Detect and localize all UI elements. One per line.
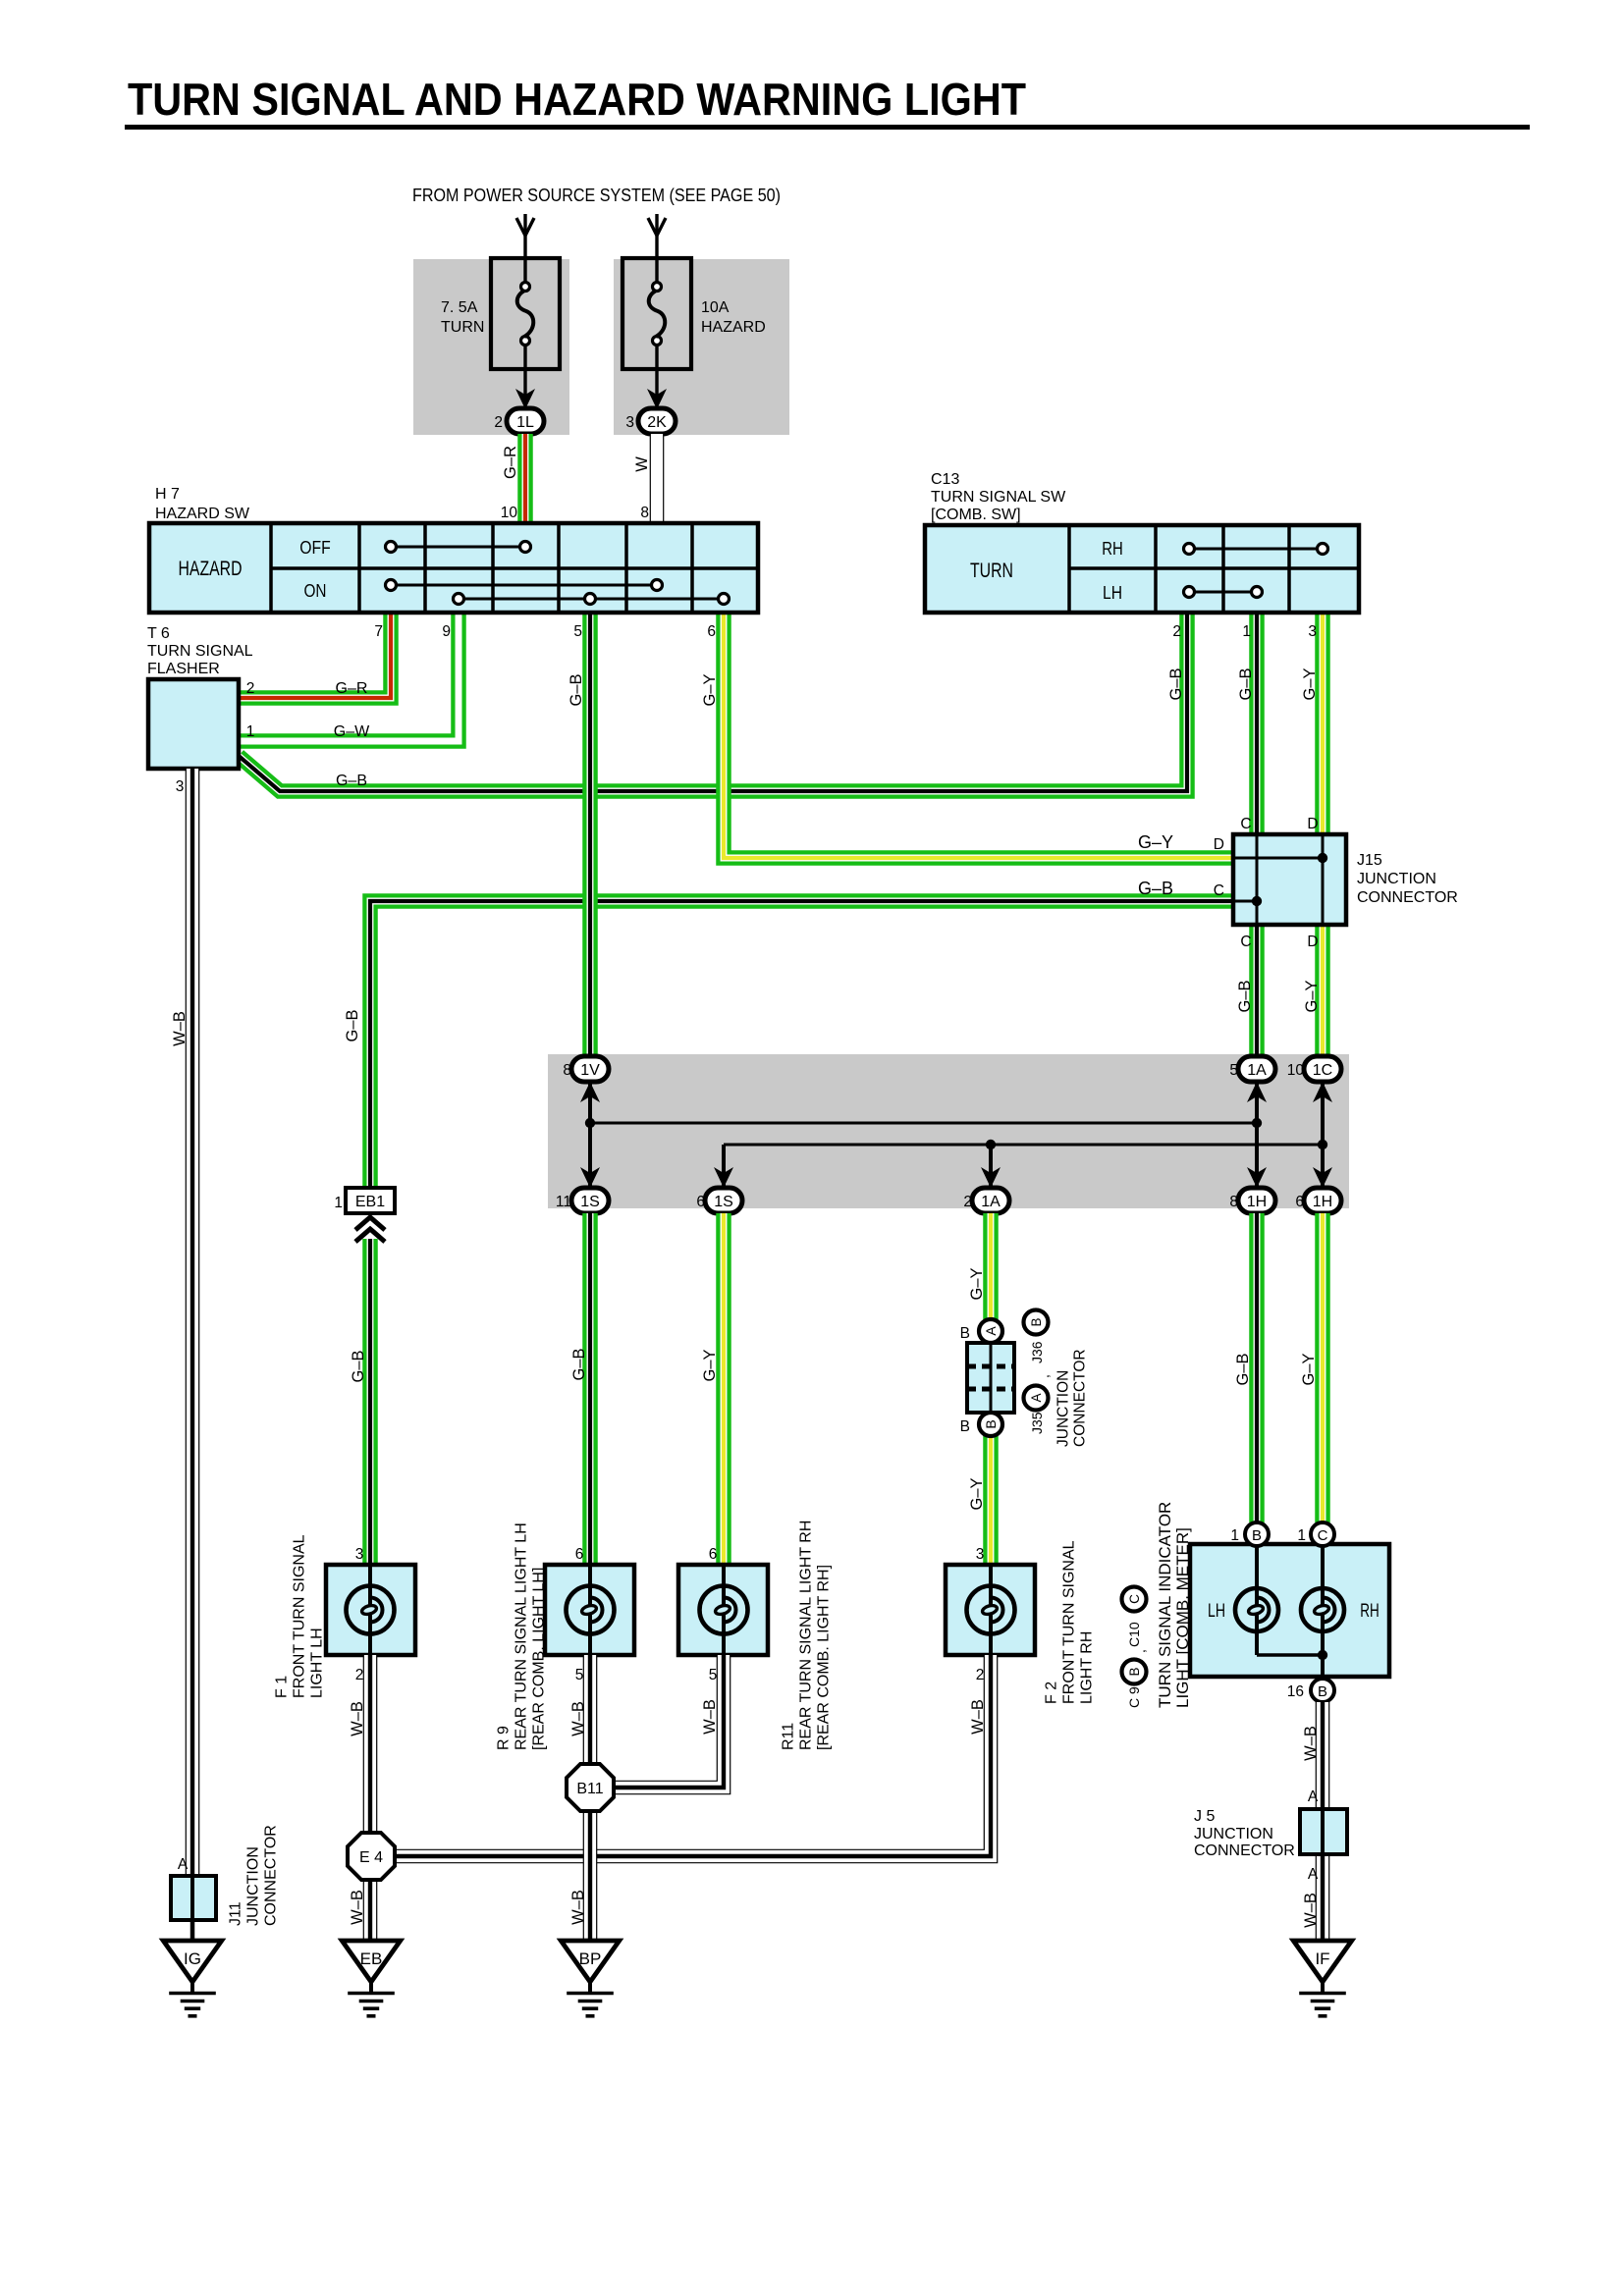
meter pin 1 B circle: [1245, 1522, 1269, 1546]
wire W-B R9 to BP ground: [583, 1655, 598, 1941]
svg-text:G–B: G–B: [570, 1348, 588, 1380]
svg-text:CONNECTOR: CONNECTOR: [1071, 1349, 1088, 1447]
svg-text:G–W: G–W: [334, 723, 370, 740]
svg-text:1C: 1C: [1313, 1062, 1332, 1079]
svg-text:EB: EB: [360, 1949, 383, 1968]
svg-text:F 1: F 1: [274, 1676, 291, 1698]
svg-text:G–R: G–R: [502, 446, 519, 479]
svg-text:CONNECTOR: CONNECTOR: [1194, 1842, 1295, 1859]
fuse 10A HAZARD with feed arrow and connector 3 2K: [655, 214, 658, 284]
octagon connector B11: [567, 1764, 614, 1811]
svg-text:G–Y: G–Y: [1300, 1353, 1318, 1385]
arrow into 5 1A: [1247, 1082, 1267, 1102]
hazard SW internal dividers: [269, 523, 273, 613]
svg-text:10: 10: [501, 505, 518, 521]
wire G-R fuse 1L to hazard SW pin 10: [517, 434, 533, 523]
svg-text:C: C: [1214, 882, 1224, 899]
connector oval 8 1H: [1238, 1188, 1275, 1213]
junction connector J15 box: [1233, 834, 1346, 925]
svg-text:,: ,: [1132, 1649, 1148, 1653]
svg-text:TURN: TURN: [970, 560, 1013, 582]
svg-text:W–B: W–B: [171, 1011, 189, 1046]
wire G-Y 6 1S to rear turn signal light RH: [716, 1213, 731, 1565]
svg-text:W–B: W–B: [1302, 1726, 1320, 1761]
meter RH indicator bulb: [1301, 1588, 1344, 1631]
svg-text:B: B: [1029, 1317, 1044, 1326]
svg-text:BP: BP: [579, 1949, 602, 1968]
svg-text:D: D: [1307, 934, 1318, 950]
turn signal switch C13 box: [925, 525, 1359, 613]
svg-text:ON: ON: [304, 581, 327, 601]
wire W-B R11 to B11 horizontal: [616, 1655, 724, 1788]
meter pin 1 C circle: [1311, 1522, 1334, 1546]
svg-text:[REAR COMB. LIGHT LH]: [REAR COMB. LIGHT LH]: [531, 1568, 548, 1750]
svg-text:W–B: W–B: [349, 1701, 366, 1736]
wire G-B J15 pin C to EB1 connector: [370, 901, 1233, 1188]
EB1 shield chevrons: [355, 1217, 385, 1230]
bus line A junction dots: [585, 1118, 595, 1128]
svg-text:G–B: G–B: [1167, 667, 1185, 700]
svg-text:[REAR COMB. LIGHT RH]: [REAR COMB. LIGHT RH]: [816, 1565, 833, 1750]
wire G-Y hazard SW pin 6 to J15 pin D: [724, 613, 1233, 858]
svg-text:B: B: [983, 1419, 999, 1428]
svg-text:G–B: G–B: [568, 673, 585, 706]
wire G-Y C13 pin 3 to J15 top D: [1315, 613, 1330, 834]
gray band bus line B: [724, 1144, 1323, 1147]
hazard SW OFF contact pin7-pin10: [391, 546, 525, 549]
meter pin 16 B circle: [1311, 1679, 1334, 1702]
F2 bulb: [967, 1586, 1015, 1634]
wire J11 to IG ground: [190, 1920, 195, 1941]
F1 bulb: [347, 1586, 395, 1634]
svg-text:LIGHT [COMB. METER]: LIGHT [COMB. METER]: [1173, 1527, 1192, 1708]
svg-text:TURN SIGNAL: TURN SIGNAL: [147, 643, 253, 660]
svg-text:CONNECTOR: CONNECTOR: [263, 1825, 280, 1926]
svg-text:11: 11: [556, 1194, 571, 1210]
hazard SW ON contact pin9-pin5-pin6: [459, 598, 724, 601]
svg-text:1H: 1H: [1247, 1194, 1267, 1210]
svg-text:JUNCTION: JUNCTION: [1357, 871, 1436, 887]
svg-text:W–B: W–B: [969, 1699, 987, 1735]
band vertical to 1A second: [989, 1145, 993, 1188]
svg-text:C 9: C 9: [1126, 1686, 1142, 1708]
svg-text:1: 1: [1297, 1527, 1306, 1544]
arrow into 2 1A: [981, 1167, 1001, 1188]
svg-text:16: 16: [1287, 1683, 1304, 1700]
svg-text:JUNCTION: JUNCTION: [1194, 1826, 1273, 1842]
J15 internal D horizontal with junction dot: [1233, 857, 1323, 860]
svg-text:A: A: [1308, 1789, 1319, 1805]
svg-text:T 6: T 6: [147, 625, 170, 642]
svg-text:J35: J35: [1029, 1412, 1045, 1434]
svg-text:5: 5: [1229, 1062, 1238, 1079]
svg-text:B: B: [1252, 1527, 1262, 1544]
svg-text:IG: IG: [184, 1949, 201, 1968]
svg-text:,: ,: [1036, 1374, 1052, 1378]
svg-text:REAR TURN SIGNAL LIGHT LH: REAR TURN SIGNAL LIGHT LH: [514, 1522, 530, 1750]
ground EB: [342, 1941, 400, 1982]
connector oval 6 1S: [705, 1188, 742, 1213]
ground IF: [1293, 1941, 1351, 1982]
svg-text:H 7: H 7: [155, 486, 180, 503]
connector oval 11 1S: [571, 1188, 609, 1213]
svg-text:5: 5: [709, 1667, 718, 1683]
svg-text:LIGHT LH: LIGHT LH: [309, 1628, 326, 1698]
arrow into 11 1S: [580, 1167, 600, 1188]
svg-text:3: 3: [1308, 623, 1317, 640]
svg-text:G–Y: G–Y: [1138, 832, 1173, 852]
wire G-B J15 bottom C to connector 5 1A: [1249, 925, 1265, 1056]
svg-text:CONNECTOR: CONNECTOR: [1357, 889, 1458, 906]
wire W-B T6 pin 3 to J11: [186, 769, 200, 1876]
svg-text:[COMB. SW]: [COMB. SW]: [931, 507, 1021, 523]
svg-text:6: 6: [696, 1194, 705, 1210]
wire G-B from T6 flasher to C13 pin 2 via long horizontal: [239, 613, 1187, 791]
svg-text:10A: 10A: [701, 299, 730, 316]
fuse 7.5A TURN with feed arrow and connector 2 1L: [523, 214, 526, 284]
title underline: [125, 125, 1530, 130]
R11 bulb: [700, 1586, 748, 1634]
svg-text:1: 1: [334, 1195, 343, 1211]
svg-text:A: A: [983, 1326, 999, 1336]
svg-text:8: 8: [640, 505, 649, 521]
gray band instrument panel harness: [548, 1054, 1349, 1208]
svg-text:1S: 1S: [580, 1194, 600, 1210]
bus line B junction dots: [986, 1140, 996, 1149]
svg-text:C: C: [1240, 816, 1251, 832]
meter internal junction dot: [1318, 1650, 1327, 1660]
wire G-B 8 1H to combination meter B: [1249, 1213, 1265, 1522]
svg-text:D: D: [1214, 836, 1224, 853]
gray panel around fuse TURN: [413, 259, 569, 435]
wire W fuse 2K to hazard SW pin 8: [650, 434, 665, 523]
svg-text:B: B: [1318, 1683, 1327, 1700]
svg-text:F 2: F 2: [1044, 1682, 1060, 1704]
svg-text:TURN: TURN: [441, 319, 484, 336]
svg-text:3: 3: [176, 778, 185, 795]
wire W-B F2 to E4 horizontal: [397, 1655, 991, 1856]
svg-text:2K: 2K: [647, 414, 667, 431]
svg-text:EB1: EB1: [355, 1194, 385, 1210]
ground IG: [163, 1941, 221, 1982]
junction connector J35 J36 box: [967, 1343, 1014, 1413]
svg-text:J 5: J 5: [1194, 1808, 1215, 1825]
front turn signal light LH F1 box: [326, 1565, 415, 1655]
svg-text:2: 2: [1172, 623, 1181, 640]
ground BP: [561, 1941, 619, 1982]
hazard switch H7 box: [149, 523, 758, 613]
J15 internal D line vertical: [1322, 834, 1325, 925]
wire G-B EB1 to front turn signal light LH: [362, 1239, 378, 1565]
svg-text:3: 3: [625, 414, 634, 431]
junction connector J11 box: [171, 1876, 216, 1920]
svg-text:6: 6: [575, 1546, 584, 1563]
junction connector J35 J36 pin A circle: [979, 1319, 1002, 1343]
svg-text:2: 2: [963, 1194, 972, 1210]
svg-text:1L: 1L: [516, 414, 534, 431]
svg-text:J36: J36: [1029, 1341, 1045, 1363]
band vertical to 1S second: [722, 1145, 726, 1188]
svg-text:JUNCTION: JUNCTION: [1055, 1370, 1071, 1447]
svg-text:6: 6: [1295, 1194, 1304, 1210]
svg-text:G–Y: G–Y: [701, 1349, 719, 1381]
svg-text:IF: IF: [1315, 1949, 1329, 1968]
J15 internal C horizontal with junction dot: [1233, 900, 1257, 903]
band vertical 1C-1H: [1321, 1082, 1325, 1188]
svg-text:J15: J15: [1357, 852, 1382, 869]
connector oval 2 1A: [972, 1188, 1009, 1213]
arrow into 6 1S: [714, 1167, 733, 1188]
svg-text:TURN SIGNAL INDICATOR: TURN SIGNAL INDICATOR: [1156, 1502, 1174, 1708]
svg-text:D: D: [1307, 816, 1318, 832]
svg-text:TURN SIGNAL AND HAZARD WARNING: TURN SIGNAL AND HAZARD WARNING LIGHT: [128, 74, 1026, 125]
svg-text:2: 2: [246, 680, 255, 697]
wire G-B C13 pin 1 to J15 top C: [1249, 613, 1265, 834]
svg-text:1H: 1H: [1313, 1194, 1332, 1210]
svg-text:FLASHER: FLASHER: [147, 661, 220, 677]
wire G-Y 2 1A to J35 junction: [983, 1213, 999, 1319]
junction connector J5 box: [1300, 1809, 1347, 1854]
svg-text:G–B: G–B: [344, 1009, 361, 1041]
C13 RH contact: [1189, 548, 1323, 551]
svg-text:B: B: [960, 1325, 970, 1342]
svg-text:7: 7: [374, 623, 383, 640]
wire G-Y J15 bottom D to connector 10 1C: [1315, 925, 1330, 1056]
svg-text:W–B: W–B: [569, 1890, 587, 1925]
turn signal flasher T6 box: [148, 679, 239, 769]
svg-text:2: 2: [355, 1667, 364, 1683]
wire G-B hazard SW pin 5 down to connector 1V: [582, 613, 598, 1056]
svg-text:G–B: G–B: [1138, 879, 1173, 898]
arrow into 1V: [580, 1082, 600, 1102]
svg-text:E 4: E 4: [359, 1849, 383, 1866]
svg-text:FRONT TURN SIGNAL: FRONT TURN SIGNAL: [1061, 1540, 1078, 1704]
svg-text:8: 8: [563, 1062, 571, 1079]
svg-text:RH: RH: [1360, 1601, 1380, 1622]
svg-text:6: 6: [707, 623, 716, 640]
R9 bulb: [567, 1586, 615, 1634]
svg-text:REAR TURN SIGNAL LIGHT RH: REAR TURN SIGNAL LIGHT RH: [798, 1521, 815, 1750]
svg-text:A: A: [1308, 1866, 1319, 1883]
svg-text:B11: B11: [576, 1781, 603, 1797]
svg-text:J11: J11: [228, 1901, 244, 1926]
rear turn signal light RH R11 box: [678, 1565, 768, 1655]
svg-text:TURN SIGNAL SW: TURN SIGNAL SW: [931, 489, 1066, 506]
connector oval 8 1V: [571, 1056, 609, 1082]
svg-text:C10: C10: [1126, 1622, 1142, 1647]
svg-text:1A: 1A: [1247, 1062, 1267, 1079]
svg-text:R11: R11: [781, 1723, 797, 1750]
J15 internal C line vertical: [1256, 834, 1259, 925]
connector oval 6 1H: [1304, 1188, 1341, 1213]
meter LH indicator bulb: [1235, 1588, 1278, 1631]
wire G-R T6 pin 2 to hazard SW pin 7: [239, 613, 391, 698]
svg-text:G–Y: G–Y: [968, 1267, 986, 1300]
svg-text:2: 2: [494, 414, 503, 431]
gray panel around fuse HAZARD: [614, 259, 789, 435]
svg-text:1V: 1V: [580, 1062, 600, 1079]
svg-text:OFF: OFF: [299, 538, 331, 558]
svg-text:G–B: G–B: [350, 1350, 367, 1382]
wire G-Y 6 1H to combination meter C: [1315, 1213, 1330, 1522]
svg-text:9: 9: [442, 623, 451, 640]
svg-text:RH: RH: [1102, 539, 1123, 559]
svg-text:1: 1: [1242, 623, 1251, 640]
svg-text:G–Y: G–Y: [1301, 667, 1319, 700]
band vertical 1V-1S: [588, 1082, 592, 1188]
svg-text:5: 5: [573, 623, 582, 640]
svg-text:6: 6: [709, 1546, 718, 1563]
svg-text:3: 3: [976, 1546, 985, 1563]
junction connector J35 J36 pin B circle: [979, 1413, 1002, 1436]
svg-text:W: W: [633, 456, 651, 472]
svg-text:G–R: G–R: [336, 680, 368, 697]
front turn signal light RH F2 box: [946, 1565, 1035, 1655]
svg-text:7. 5A: 7. 5A: [441, 299, 478, 316]
svg-text:G–Y: G–Y: [701, 673, 719, 706]
hazard SW ON contact pin7-pin8: [391, 584, 657, 587]
svg-text:5: 5: [575, 1667, 584, 1683]
svg-text:R 9: R 9: [496, 1726, 513, 1750]
svg-text:HAZARD SW: HAZARD SW: [155, 506, 250, 522]
C13 LH contact: [1189, 591, 1257, 594]
svg-text:C: C: [1318, 1527, 1328, 1544]
wire G-B 11 1S to rear turn signal light LH: [582, 1213, 598, 1565]
combination meter turn signal indicator box: [1190, 1544, 1389, 1677]
svg-text:FROM POWER SOURCE SYSTEM (SEE: FROM POWER SOURCE SYSTEM (SEE PAGE 50): [412, 186, 781, 205]
svg-text:A: A: [178, 1856, 189, 1873]
wire W-B meter 16 to J5: [1316, 1702, 1330, 1809]
svg-text:B: B: [1127, 1667, 1142, 1676]
svg-text:B: B: [960, 1418, 970, 1435]
svg-text:1S: 1S: [714, 1194, 733, 1210]
svg-text:C13: C13: [931, 471, 959, 488]
svg-text:LH: LH: [1103, 583, 1122, 603]
wire G-W T6 pin 1 to hazard SW pin 9: [239, 613, 459, 741]
svg-text:HAZARD: HAZARD: [179, 558, 243, 580]
wire G-Y J35 to front turn signal light RH: [983, 1436, 999, 1565]
arrow into 6 1H: [1313, 1167, 1332, 1188]
svg-text:W–B: W–B: [701, 1699, 719, 1735]
svg-text:W–B: W–B: [1302, 1893, 1320, 1928]
C13 internal dividers: [1067, 525, 1071, 613]
connector oval 10 1C: [1304, 1056, 1341, 1082]
svg-text:1: 1: [1230, 1527, 1239, 1544]
svg-text:8: 8: [1229, 1194, 1238, 1210]
svg-text:G–B: G–B: [1236, 980, 1254, 1012]
svg-text:G–B: G–B: [336, 773, 367, 789]
meter internal LH branch: [1257, 1653, 1323, 1657]
wire W-B F1 to EB ground: [363, 1655, 378, 1941]
rear turn signal light LH R9 box: [545, 1565, 634, 1655]
svg-text:C: C: [1240, 934, 1251, 950]
octagon connector E4: [348, 1833, 395, 1880]
svg-text:LH: LH: [1208, 1601, 1225, 1622]
band vertical 1A-1H: [1255, 1082, 1259, 1188]
svg-text:1A: 1A: [981, 1194, 1001, 1210]
svg-text:1: 1: [246, 723, 255, 740]
svg-text:HAZARD: HAZARD: [701, 319, 766, 336]
gray band bus line A: [590, 1122, 1257, 1125]
svg-text:FRONT TURN SIGNAL: FRONT TURN SIGNAL: [292, 1534, 308, 1698]
svg-text:A: A: [1029, 1393, 1044, 1402]
svg-text:G–B: G–B: [1237, 667, 1255, 700]
connector EB1 box: [346, 1188, 395, 1213]
arrow into 8 1H: [1247, 1167, 1267, 1188]
svg-text:2: 2: [976, 1667, 985, 1683]
svg-text:LIGHT RH: LIGHT RH: [1079, 1631, 1096, 1704]
connector oval 5 1A: [1238, 1056, 1275, 1082]
svg-text:G–Y: G–Y: [1303, 980, 1321, 1012]
arrow into 10 1C: [1313, 1082, 1332, 1102]
svg-text:G–B: G–B: [1234, 1353, 1252, 1385]
svg-text:3: 3: [355, 1546, 364, 1563]
svg-text:W–B: W–B: [569, 1701, 587, 1736]
svg-text:W–B: W–B: [349, 1890, 366, 1925]
svg-text:G–Y: G–Y: [968, 1477, 986, 1510]
wire W-B J5 to IF ground: [1316, 1854, 1330, 1941]
svg-text:JUNCTION: JUNCTION: [245, 1846, 262, 1926]
svg-text:C: C: [1127, 1594, 1142, 1604]
svg-text:10: 10: [1287, 1062, 1305, 1079]
